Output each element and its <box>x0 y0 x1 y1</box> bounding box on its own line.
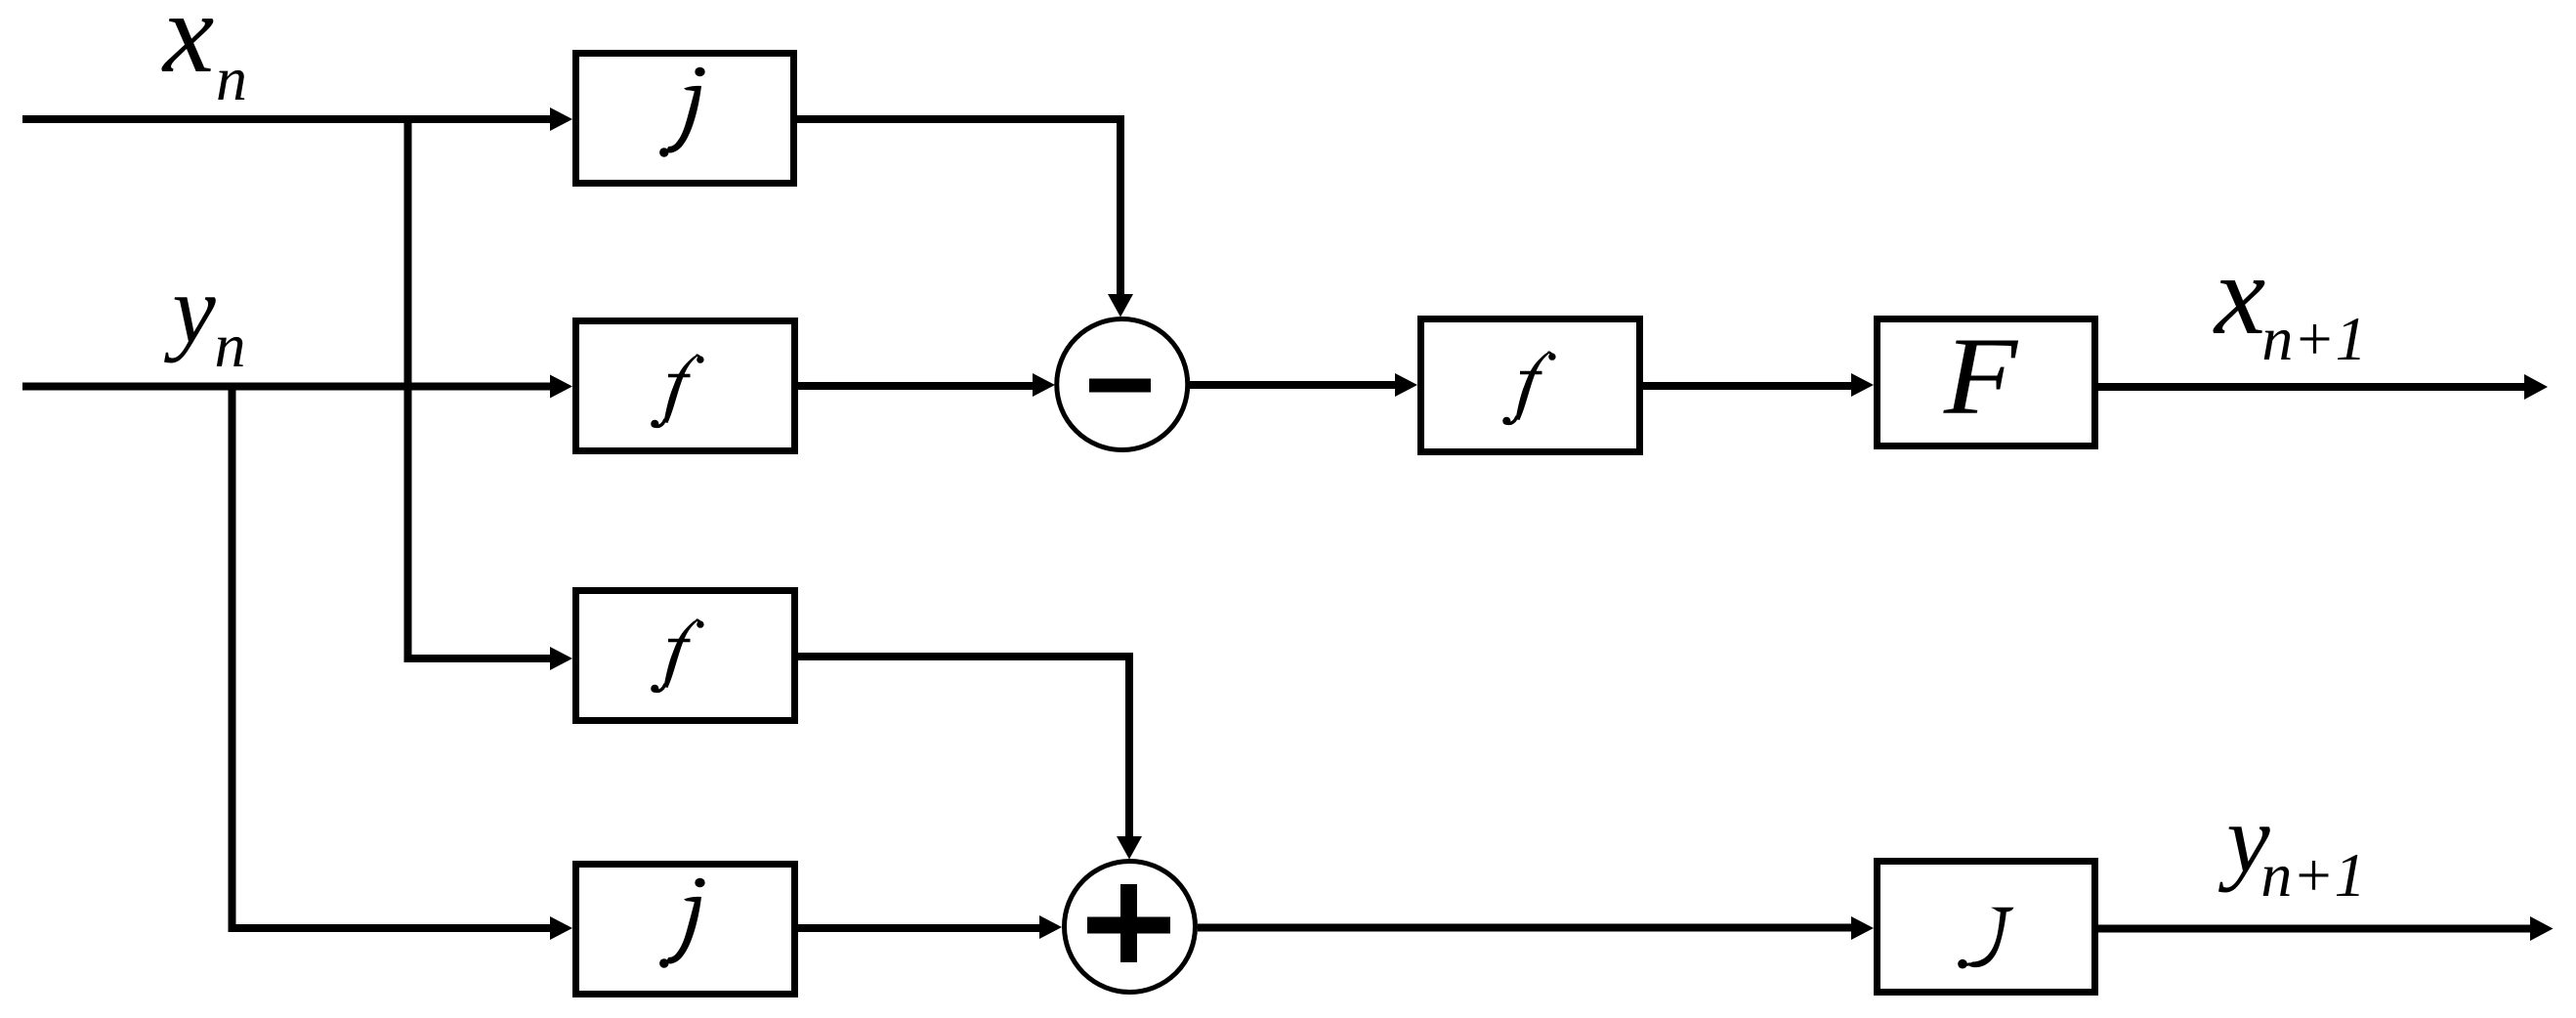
block J <box>1878 862 2095 993</box>
svg-text:y: y <box>163 255 216 363</box>
block F <box>1878 316 2095 446</box>
svg-text:x: x <box>161 0 214 97</box>
block f5 <box>1421 319 1640 452</box>
wire from j4 to plus junction <box>798 915 1062 939</box>
block f3 <box>576 591 795 721</box>
wire from f5 to block F <box>1643 373 1874 397</box>
wire output y_n+1 <box>2098 916 2554 941</box>
svg-text:F: F <box>1943 316 2019 438</box>
summing junction minus <box>1057 319 1188 450</box>
summing junction plus <box>1065 862 1196 993</box>
svg-text:n+1: n+1 <box>2261 304 2366 373</box>
wire from j1 to minus junction <box>797 119 1133 318</box>
wire from plus junction to block J <box>1198 916 1874 940</box>
svg-text:x: x <box>2213 231 2265 359</box>
label x_n+1 <box>2213 231 2367 373</box>
block j1 <box>576 54 794 184</box>
wire from f3 to plus junction <box>798 657 1142 860</box>
wire input x_n <box>22 107 572 131</box>
block f2 <box>576 321 795 451</box>
svg-text:n+1: n+1 <box>2260 840 2365 910</box>
wire branch from x_n down to block f3 <box>408 115 573 670</box>
svg-text:n: n <box>215 311 246 380</box>
wire output x_n+1 <box>2098 374 2548 400</box>
label y_n <box>163 255 245 380</box>
wire input y_n <box>22 375 572 399</box>
wire branch from y_n down to block j4 <box>232 383 573 940</box>
wire from f2 to minus junction <box>798 373 1055 397</box>
label y_n+1 <box>2217 785 2365 910</box>
label x_n <box>161 0 247 113</box>
block j4 <box>576 865 795 995</box>
svg-text:n: n <box>216 44 247 113</box>
wire from minus junction to block f5 <box>1190 373 1417 397</box>
